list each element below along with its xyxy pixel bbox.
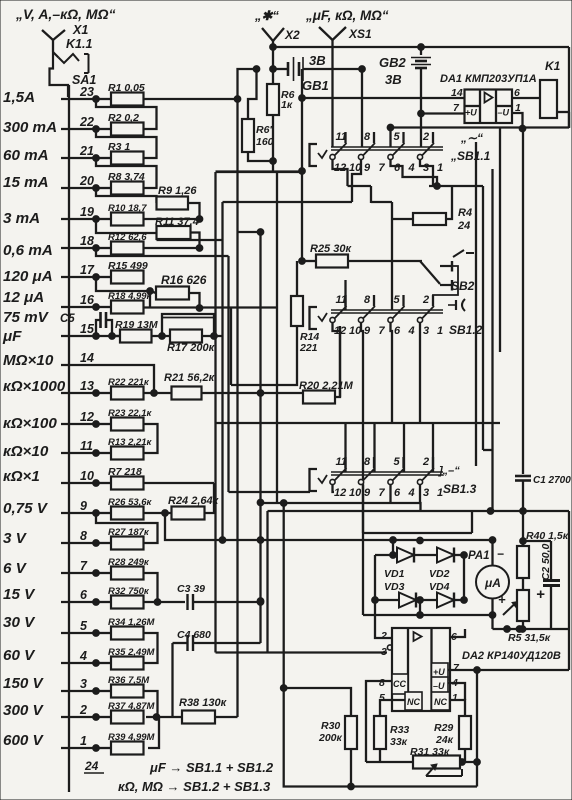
label DA1 [440,73,537,85]
svg-text:R13 2,21к: R13 2,21к [108,437,153,448]
pin 5 DA2 [379,692,385,704]
label C1 [533,475,571,486]
wire R17 right [202,333,222,340]
resistor R38 [179,697,228,724]
resistor R19 [96,319,158,343]
svg-text:12 μA: 12 μA [3,289,44,306]
wire X1 to SA1 [50,52,69,97]
svg-text:+U: +U [433,667,445,677]
resistor R5 [508,590,551,644]
wire mid bus e [257,229,264,643]
switch SB1.1 [310,131,444,174]
node 20 switch contact [61,174,99,191]
svg-text:300 mA: 300 mA [3,119,57,136]
node 23 switch contact [61,85,99,102]
wire node9 under [96,513,158,543]
wire top rail [270,44,569,51]
label plusU DA2 [433,667,445,677]
wire y186 line [371,186,483,203]
svg-text:R10 18,7: R10 18,7 [108,203,147,214]
svg-text:R20 2,21M: R20 2,21M [299,380,354,392]
wire node16 line 75mV [144,306,278,308]
svg-text:R37 4,87М: R37 4,87М [108,701,156,712]
svg-text:кΩ, MΩ → SB1.2 + SB1.3: кΩ, MΩ → SB1.2 + SB1.3 [118,779,271,794]
wire pin6 [450,629,465,637]
svg-text:R33: R33 [390,724,409,736]
svg-text:16: 16 [80,293,95,307]
wire R6p bottom [248,152,273,161]
resistor R13 [96,437,153,460]
wire X2 down [270,47,277,84]
svg-text:кΩ×1: кΩ×1 [3,468,40,485]
wire pin2 [375,615,392,638]
pin 14 DA1 [451,87,463,99]
svg-text:3: 3 [423,487,429,499]
node 2 switch contact [61,703,99,720]
label GB1 [302,78,329,93]
wire mid bus c [227,256,229,492]
resistor R27 [96,527,150,550]
label XS1 [348,27,372,41]
diode VD2 [437,548,454,563]
label SB1.3 [443,482,477,496]
resistor R26 [96,497,153,520]
svg-text:4: 4 [408,325,415,337]
label minusU DA2 [433,681,445,691]
svg-text:R2 0,2: R2 0,2 [108,112,139,124]
pin 6 DA1 [514,87,520,99]
svg-text:NC: NC [434,697,447,707]
svg-text:R21 56,2к: R21 56,2к [164,372,216,384]
svg-text:3: 3 [381,646,387,658]
IC DA1 box [465,90,513,124]
svg-text:8: 8 [364,294,371,306]
wire node20 to R9 [96,188,157,203]
wire da2 box right [568,511,570,670]
wire sb12 feed2 [433,295,442,306]
svg-text:]„–“: ]„–“ [438,465,460,477]
wire pin5 [380,700,405,716]
svg-text:0,6 mA: 0,6 mA [3,242,53,259]
node 24 label [84,759,104,773]
svg-text:4: 4 [408,487,415,499]
svg-text:μF → SB1.1 + SB1.2: μF → SB1.1 + SB1.2 [149,760,274,775]
wire sb11 feed5 [387,124,394,147]
wire C4 left drop [171,643,173,717]
wire sb11 drop9 [352,160,361,202]
resistor R35 [96,647,156,670]
svg-text:18: 18 [80,234,94,248]
svg-text:SB1.2: SB1.2 [449,323,483,337]
wire R29 bottom [464,749,466,762]
svg-text:R39 4,99М: R39 4,99М [108,732,156,743]
svg-text:–U: –U [498,108,510,118]
formula kOhm [118,779,271,794]
svg-text:R38 130к: R38 130к [179,697,228,709]
svg-text:7: 7 [379,325,386,337]
svg-text:GB1: GB1 [302,78,329,93]
meter PA1 [468,537,509,607]
wire mid bus g [276,172,278,503]
wire node3 to node2 [144,691,158,717]
wire y385 link [231,308,297,385]
wire bridge bottom [363,600,496,618]
wire y172 line [216,171,303,173]
wire sb12 drop6 [391,323,393,423]
label VD4 [429,581,450,593]
node 19 switch contact [61,205,99,222]
resistor R6 [267,84,295,115]
svg-text:PA1: PA1 [468,550,490,562]
svg-text:R7 218: R7 218 [108,466,142,478]
wire R33 bottom [379,749,381,762]
resistor R25 [299,243,353,268]
wire R38 right up [215,716,238,718]
label plusU DA1 [465,108,477,118]
svg-text:R26 53,6к: R26 53,6к [108,497,153,508]
svg-text:7: 7 [80,559,88,573]
svg-text:+: + [498,592,506,607]
svg-text:„✱“: „✱“ [254,8,279,23]
wire pin1 drop [512,113,526,132]
node 12 switch contact [61,410,99,427]
label K1 [545,59,561,73]
svg-text:X2: X2 [284,28,300,42]
svg-text:R17 200к: R17 200к [167,342,216,354]
wire sb13 drop6 [389,485,391,503]
svg-text:0,75 V: 0,75 V [3,500,49,517]
wire node6 line [144,599,186,606]
svg-text:R9 1,26: R9 1,26 [158,185,197,197]
diode VD1 [397,548,414,563]
wire sb12 drop3 [419,323,421,423]
svg-text:+U: +U [465,108,477,118]
label DA2 [462,650,561,662]
wire bridge top tap [390,537,424,604]
wire y541 ext [523,540,551,542]
svg-text:7: 7 [379,487,386,499]
wire sb12 drop12 [333,323,341,397]
svg-text:23: 23 [79,85,94,99]
pin 7 DA1 [453,102,460,114]
svg-text:R11 37,4: R11 37,4 [155,216,199,228]
svg-text:DA2 КР140УД120В: DA2 КР140УД120В [462,650,561,662]
resistor R37 [96,701,156,724]
svg-text:13: 13 [80,379,94,393]
node 9 switch contact [61,499,99,516]
svg-text:NC: NC [407,697,420,707]
wire R40 R5 [522,578,524,590]
wire sb12 feed11 [344,280,346,310]
svg-text:60 V: 60 V [3,647,36,664]
wire R11 right [191,233,203,252]
svg-text:22: 22 [79,115,94,129]
diode VD3 [399,593,416,608]
svg-text:кΩ×100: кΩ×100 [3,415,57,432]
svg-text:3 mA: 3 mA [3,210,40,227]
socket X2 [262,28,284,48]
svg-text:1: 1 [452,692,458,704]
wire PA1 bottom [493,599,570,633]
diode VD4 [437,593,454,608]
wire C5 node [109,333,120,340]
wire R9 to node19 [144,203,203,222]
resistor R22 [96,377,150,400]
wire sb13 drop9 [362,485,364,615]
svg-text:R6': R6' [256,124,272,136]
battery GB1 [273,57,362,81]
resistor R23 [96,408,153,431]
wire node19 to R11 [96,219,157,233]
svg-text:11: 11 [80,439,93,453]
svg-text:200к: 200к [318,732,343,744]
svg-text:2: 2 [422,456,429,468]
svg-text:12: 12 [334,487,346,499]
wire y232 link [238,231,261,233]
svg-text:6: 6 [394,162,401,174]
resistor R18 [96,291,153,314]
svg-text:24: 24 [84,759,99,773]
wire node7 to node6 [144,573,158,602]
svg-text:24к: 24к [435,734,454,746]
label SB1.1 [450,149,491,163]
svg-text:„V, A,–кΩ, MΩ“: „V, A,–кΩ, MΩ“ [15,6,116,22]
wire R24 right [205,483,215,513]
node 17 switch contact [61,263,99,280]
svg-text:„∼“: „∼“ [460,131,483,145]
wire y186 left [348,185,372,187]
svg-text:R8 3,74: R8 3,74 [108,171,145,183]
wire y533 line [363,511,472,533]
resistor R24 [144,495,220,520]
svg-text:R34 1,26М: R34 1,26М [108,617,156,628]
wire R39 right up [148,717,159,748]
svg-text:2: 2 [380,630,387,642]
resistor R6p [242,66,274,152]
svg-text:3В: 3В [309,53,326,68]
wire node22 loop to R3 [96,129,157,158]
svg-text:33к: 33к [390,736,408,748]
svg-text:6 V: 6 V [3,560,28,577]
label minusU DA1 [498,108,510,118]
svg-text:60 mA: 60 mA [3,147,49,164]
svg-text:21: 21 [79,144,94,158]
svg-text:R30: R30 [321,720,340,732]
wire R30 top [284,688,351,716]
svg-text:кΩ×10: кΩ×10 [3,443,49,460]
svg-text:1: 1 [437,325,443,337]
svg-text:C5: C5 [60,313,75,325]
resistor R15 [96,260,148,284]
label V,A,-kOhm,MOhm [15,6,116,22]
svg-text:19: 19 [80,205,94,219]
svg-text:C3 39: C3 39 [177,583,205,595]
resistor R7 [96,466,144,490]
resistor R40 [517,530,569,578]
wire sb12 drop9 [361,323,363,533]
svg-text:20: 20 [79,174,94,188]
label SB1.1 tilde [460,131,483,145]
node 13 switch contact [61,379,99,396]
wire R20 right [335,326,340,397]
svg-text:XS1: XS1 [348,27,372,41]
svg-text:2: 2 [79,703,87,717]
label SB2 icon [453,250,474,257]
resistor R16 [156,273,207,300]
label VD1 [384,568,405,580]
svg-text:R19 13M: R19 13M [115,319,158,331]
svg-text:μA: μA [484,576,501,590]
node 4 switch contact [61,649,99,666]
svg-text:9: 9 [80,499,87,513]
label star [254,8,279,23]
label K1.1 [66,37,92,51]
svg-text:15 V: 15 V [3,586,36,603]
wire node18 under [96,248,229,256]
IC DA2 box [392,628,450,711]
wire mid bus f [216,511,393,653]
svg-text:3: 3 [423,162,429,174]
svg-text:600 V: 600 V [3,732,45,749]
resistor R30 [318,716,357,749]
wire mid bus b [157,202,223,540]
node 6 switch contact [61,588,99,605]
wire node9 to meter line [165,513,493,544]
svg-text:MΩ×10: MΩ×10 [3,352,54,369]
svg-text:17: 17 [80,263,95,277]
resistor R10 [96,203,147,226]
node 18 switch contact [61,234,99,251]
svg-text:14: 14 [451,87,463,99]
svg-text:8: 8 [80,529,87,543]
label NC right [434,697,447,707]
svg-text:R36 7,5М: R36 7,5М [108,675,150,686]
wire sb11 drop12 [333,160,348,186]
svg-text:300 V: 300 V [3,702,45,719]
rotary switch common bus [68,85,70,792]
node 16 switch contact [61,293,99,310]
wire R14 top [296,261,298,296]
svg-text:VD2: VD2 [429,568,450,580]
capacitor C1 [515,129,531,547]
wire node17 to R16 [96,277,156,307]
svg-text:R22 221к: R22 221к [108,377,150,388]
wire y113 line [421,112,465,114]
wire gb1 left drop [299,69,306,261]
relay contact K1.1 [53,52,89,73]
resistor R2 [96,112,144,136]
label X1 [72,23,88,37]
wire node13 line [202,390,304,397]
svg-text:120 μA: 120 μA [3,268,53,285]
svg-text:−: − [497,547,504,561]
node 11 switch contact [61,439,99,456]
wire sb13 feed8 [373,423,375,472]
wire R6 bottom [270,115,277,171]
wire sb13 drop3 [419,485,422,511]
resistor R3 [96,141,144,165]
label CC [393,679,406,689]
wire mid bus d [236,99,238,717]
wire node14 to node13 [96,365,154,393]
svg-text:–U: –U [433,681,445,691]
svg-text:5: 5 [80,619,88,633]
wire pin1 [450,700,465,716]
svg-text:CC: CC [393,679,406,689]
svg-text:R23 22,1к: R23 22,1к [108,408,153,419]
resistor R36 [96,675,150,698]
svg-text:3 V: 3 V [3,530,28,547]
wire sb11 drop3 [420,160,433,186]
svg-text:6: 6 [394,325,401,337]
wire right bus d [499,128,501,353]
resistor R29 [434,716,471,749]
resistor R34 [96,617,156,640]
svg-text:6: 6 [80,588,88,602]
svg-text:15 mA: 15 mA [3,174,49,191]
svg-text:8: 8 [364,456,371,468]
wire sb12 feed5 [391,202,393,310]
node 1 switch contact [61,734,99,751]
label VD2 [429,568,450,580]
svg-text:9: 9 [364,162,371,174]
svg-text:1,5A: 1,5A [3,89,35,106]
svg-text:„μF, кΩ, MΩ“: „μF, кΩ, MΩ“ [305,8,389,23]
resistor R32 [96,586,150,609]
resistor R4 [392,207,472,232]
svg-text:30 V: 30 V [3,614,36,631]
svg-text:5: 5 [394,131,401,143]
resistor R17 [167,330,216,355]
svg-text:8: 8 [379,677,385,689]
wire node10 line [144,482,215,484]
label GB2 3V [385,72,402,87]
label NC left [407,697,420,707]
resistor R31 [410,746,460,769]
svg-text:R5 31,5к: R5 31,5к [508,632,551,644]
svg-text:R16 626: R16 626 [161,273,207,287]
svg-text:R28 249к: R28 249к [108,557,150,568]
wire K1 right [557,47,569,128]
svg-text:R24 2,64к: R24 2,64к [168,495,220,507]
switch SB1.3 [310,456,444,499]
svg-text:7: 7 [379,162,386,174]
preset arrow R5 [503,602,526,633]
wire sb13 drop12 [333,485,335,492]
svg-text:C1 2700: C1 2700 [533,475,571,486]
formula muF [149,760,274,775]
label GB1 3V [309,53,326,68]
pin 3 DA2 [381,646,387,658]
wire mid bus a [214,172,216,653]
wire right bus b [483,186,493,450]
svg-text:K1.1: K1.1 [66,37,92,51]
svg-text:R25 30к: R25 30к [310,243,352,255]
switch SB2 [420,261,458,295]
wire y503 line [261,502,421,504]
svg-text:K1: K1 [545,59,561,73]
node 10 switch contact [61,469,99,486]
node 7 switch contact [61,559,99,576]
wire R25 right [348,260,422,262]
wire y762 line [366,759,477,766]
wire y492 line [229,491,311,493]
wire sb13 feed2 [432,423,434,472]
svg-text:14: 14 [80,351,94,365]
svg-text:10: 10 [80,469,94,483]
pin 8 DA2 [379,677,385,689]
node 8 switch contact [61,529,99,546]
